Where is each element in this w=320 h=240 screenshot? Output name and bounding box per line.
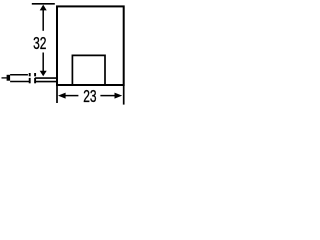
dim 32 down arrowhead [40, 71, 47, 77]
break dash A lower [29, 78, 31, 83]
probe body top [10, 74, 28, 76]
dim 23 right arrowhead [115, 93, 123, 99]
probe collar [7, 75, 11, 81]
dim 32 upper shaft [42, 10, 44, 31]
svg-text:32: 32 [33, 34, 46, 54]
rod top line [35, 77, 56, 79]
dim 23 left arrowhead [58, 93, 66, 99]
rod bottom line [35, 81, 56, 83]
svg-text:23: 23 [83, 87, 96, 105]
inner block [72, 55, 105, 85]
probe tip lead [2, 77, 7, 79]
probe body bottom [10, 81, 30, 83]
break dash B lower [34, 78, 36, 83]
dim 32 top extension line [32, 3, 55, 5]
left wall extension line [56, 86, 58, 103]
dim 23 right shaft [100, 95, 114, 97]
dim 32 up arrowhead [40, 5, 47, 11]
tank outer box [57, 6, 124, 85]
right wall extension line [123, 86, 125, 105]
dim 23 left shaft [65, 95, 78, 97]
break dash B upper [34, 73, 36, 76]
background [0, 0, 133, 105]
dim 32 lower shaft [42, 53, 44, 72]
break dash A upper [29, 73, 31, 76]
